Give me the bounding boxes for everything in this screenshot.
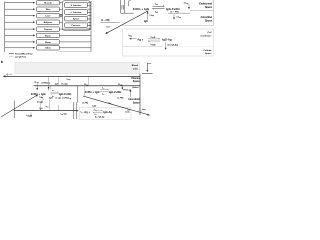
svg-text:Ag +: Ag +	[84, 110, 90, 114]
svg-text:IgG: IgG	[93, 106, 97, 108]
svg-text:Space: Space	[205, 6, 213, 9]
svg-text:Endoso.: Endoso.	[133, 87, 140, 89]
svg-text:b: b	[1, 60, 3, 64]
svg-text:kon: kon	[155, 4, 158, 6]
svg-text:CLup: CLup	[150, 15, 155, 17]
svg-text:IgG-Ag: IgG-Ag	[162, 38, 172, 42]
svg-text:Blood: Blood	[132, 65, 139, 67]
svg-text:L. Intestine: L. Intestine	[71, 11, 82, 14]
svg-text:IgG: IgG	[49, 98, 53, 100]
svg-text:CLup: CLup	[84, 84, 88, 86]
svg-text:Adipose: Adipose	[44, 21, 53, 24]
svg-text:(1 – FR): (1 – FR)	[101, 20, 110, 22]
svg-text:S. Intestine: S. Intestine	[71, 4, 83, 7]
svg-text:(1-FR): (1-FR)	[83, 102, 89, 104]
svg-text:Liver: Liver	[45, 16, 50, 18]
svg-text:kon: kon	[102, 87, 105, 89]
svg-text:koff: koff	[102, 93, 105, 95]
svg-text:Thymus: Thymus	[44, 29, 53, 31]
svg-text:(1-σI)L: (1-σI)L	[56, 98, 62, 100]
svg-text:(1-FR)CLup: (1-FR)CLup	[42, 82, 51, 84]
svg-text:IgG: IgG	[144, 20, 148, 23]
svg-text:FcRn + IgG: FcRn + IgG	[85, 90, 100, 94]
svg-text:Space: Space	[205, 20, 213, 23]
svg-text:Lymph Flow: Lymph Flow	[15, 56, 26, 58]
svg-text:kon: kon	[52, 90, 55, 92]
svg-text:kint·IgG: kint·IgG	[61, 113, 68, 116]
svg-text:Space: Space	[205, 53, 212, 55]
svg-text:(1-FR): (1-FR)	[118, 97, 124, 99]
svg-text:Q – L: Q – L	[7, 74, 13, 76]
svg-text:(1 – FR): (1 – FR)	[171, 11, 179, 13]
svg-text:Interstitial: Interstitial	[129, 98, 140, 101]
svg-text:koff: koff	[155, 12, 158, 14]
svg-text:Plasma/Blood Flow: Plasma/Blood Flow	[15, 53, 33, 55]
svg-text:Spleen: Spleen	[73, 18, 80, 20]
svg-text:Cellular: Cellular	[203, 50, 211, 52]
svg-text:(1-σV)Q: (1-σV)Q	[62, 84, 69, 86]
svg-text:Cell: Cell	[207, 32, 211, 34]
svg-text:IgG-FcRn: IgG-FcRn	[59, 92, 72, 96]
svg-text:(1-FR)CLup: (1-FR)CLup	[63, 98, 72, 100]
svg-text:Cells: Cells	[133, 69, 139, 71]
svg-text:IgG-FcRn: IgG-FcRn	[109, 90, 122, 94]
svg-text:Space: Space	[133, 102, 140, 104]
svg-text:Plasma: Plasma	[131, 78, 140, 80]
svg-text:memb.: memb.	[125, 112, 131, 114]
svg-text:Pancreas: Pancreas	[72, 25, 82, 27]
svg-text:kdeg: kdeg	[40, 96, 44, 98]
svg-text:Other: Other	[45, 47, 51, 50]
svg-text:CLup: CLup	[177, 17, 182, 19]
svg-text:kon: kon	[95, 109, 98, 111]
svg-text:Ag +: Ag +	[137, 38, 144, 42]
svg-text:IgG-Ag: IgG-Ag	[103, 110, 112, 114]
svg-text:CLup: CLup	[34, 82, 39, 84]
svg-text:Skin: Skin	[46, 9, 51, 11]
svg-text:kdeg: kdeg	[81, 111, 84, 113]
svg-text:Brain: Brain	[45, 42, 51, 44]
svg-text:Space: Space	[133, 81, 140, 83]
svg-text:membrane: membrane	[200, 36, 212, 38]
svg-text:kdeg: kdeg	[27, 115, 31, 117]
svg-text:Muscle: Muscle	[44, 3, 52, 5]
svg-text:CLup: CLup	[184, 2, 189, 4]
svg-text:FR·CLup: FR·CLup	[124, 89, 131, 91]
svg-text:koff: koff	[107, 26, 110, 28]
svg-text:kdeg: kdeg	[142, 109, 146, 111]
svg-text:CLup: CLup	[67, 79, 71, 81]
svg-text:Bone: Bone	[45, 35, 51, 37]
svg-text:FcRn + IgG: FcRn + IgG	[133, 7, 150, 11]
svg-text:FcRn + IgG: FcRn + IgG	[31, 92, 46, 96]
svg-text:kint: kint	[46, 105, 49, 108]
